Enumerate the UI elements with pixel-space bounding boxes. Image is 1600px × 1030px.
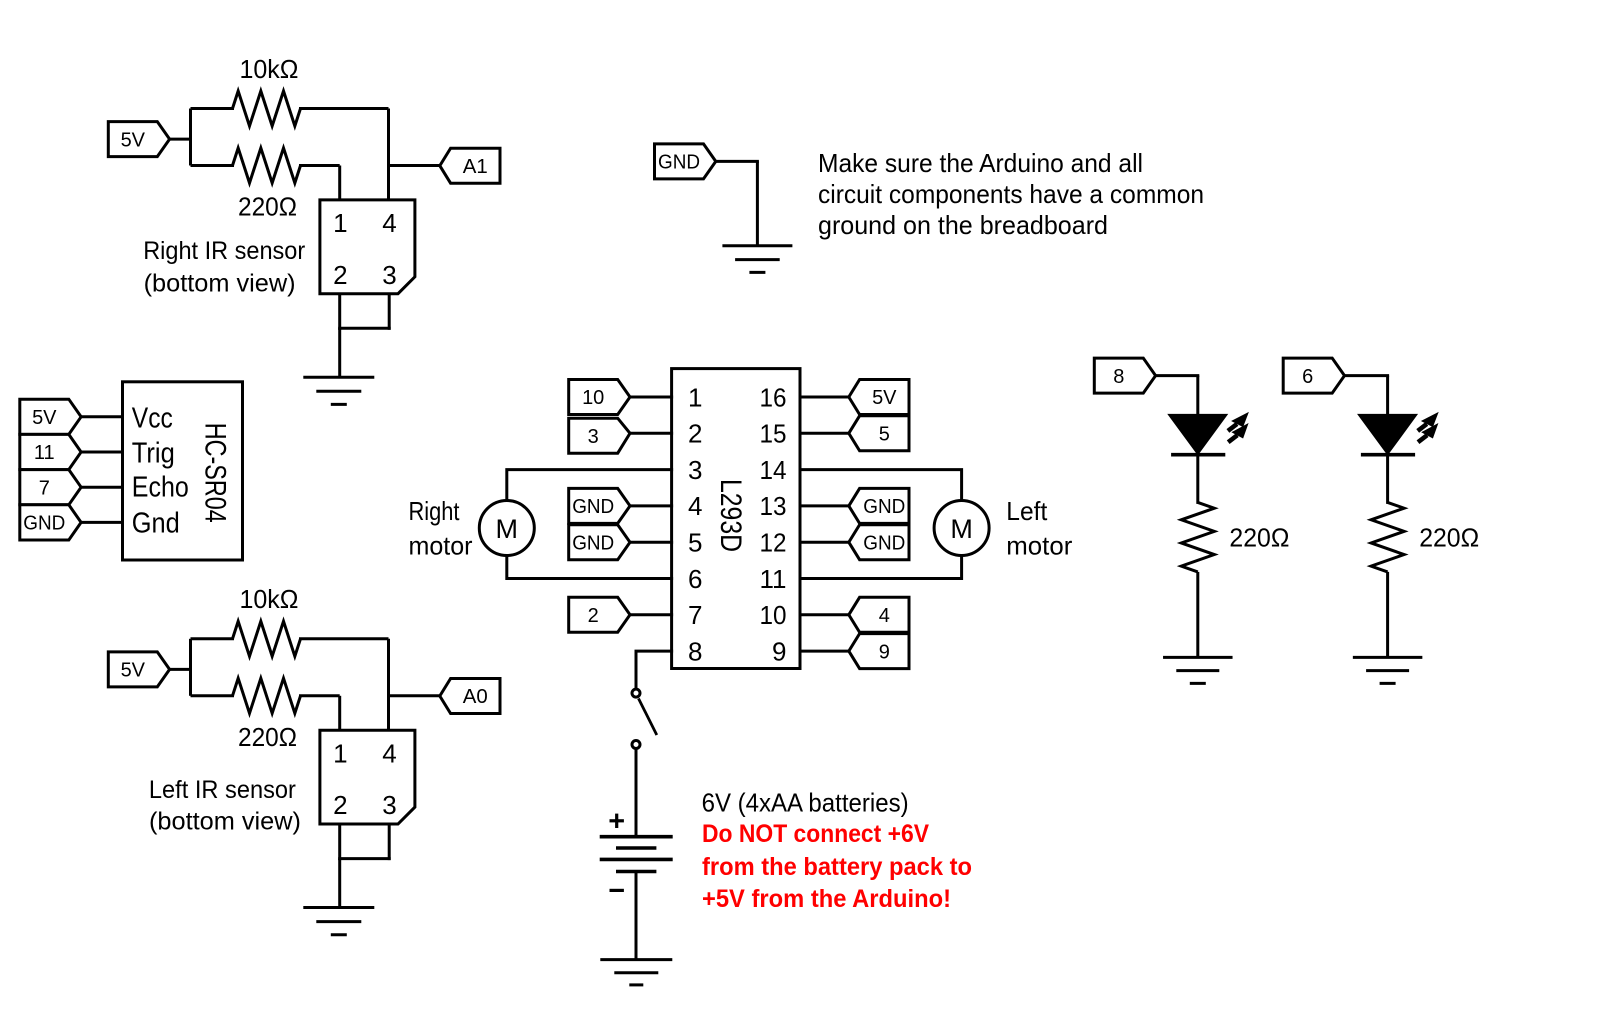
svg-text:5: 5 — [688, 528, 702, 558]
svg-text:2: 2 — [333, 790, 347, 820]
svg-text:GND: GND — [23, 513, 65, 535]
svg-text:1: 1 — [333, 739, 347, 769]
svg-text:11: 11 — [34, 442, 55, 464]
ground (common) — [722, 244, 792, 247]
wire — [299, 637, 389, 640]
svg-text:motor: motor — [1006, 531, 1072, 561]
wire — [629, 396, 673, 399]
svg-text:5V: 5V — [121, 660, 146, 682]
LED cathode bar — [1361, 453, 1415, 457]
flag 6 (LED) — [1283, 358, 1344, 393]
wire — [1386, 376, 1389, 417]
IR sensor box (left IR) — [320, 730, 415, 824]
svg-text:16: 16 — [760, 382, 787, 412]
wire — [299, 107, 389, 110]
wire to A0 — [389, 694, 441, 697]
svg-text:5: 5 — [879, 423, 890, 445]
svg-text:4: 4 — [688, 491, 702, 521]
wire — [80, 486, 124, 489]
label − — [610, 889, 624, 892]
svg-text:10: 10 — [582, 387, 604, 409]
flag 5V (left IR) — [108, 652, 169, 687]
wire — [1196, 456, 1199, 504]
label + — [610, 819, 624, 822]
svg-text:4: 4 — [879, 605, 890, 627]
wire — [338, 294, 341, 330]
svg-text:GND: GND — [658, 152, 700, 174]
svg-text:3: 3 — [382, 790, 396, 820]
svg-text:Echo: Echo — [132, 471, 189, 503]
flag A0 — [440, 679, 500, 714]
svg-text:Gnd: Gnd — [132, 507, 180, 539]
flag 2 (L293D pin 7) — [569, 597, 630, 632]
wire — [716, 160, 759, 163]
svg-text:3: 3 — [382, 260, 396, 290]
svg-text:Do NOT connect +6V: Do NOT connect +6V — [702, 820, 929, 848]
wire — [388, 824, 391, 860]
flag 7 (HC-SR04) — [20, 470, 81, 505]
flag 8 (LED) — [1094, 358, 1155, 393]
svg-text:4: 4 — [382, 739, 396, 769]
wire — [80, 415, 124, 418]
svg-text:Right: Right — [409, 496, 461, 526]
flag GND (L293D pin 4) — [569, 488, 630, 523]
wire — [338, 857, 391, 860]
wire — [635, 749, 638, 839]
svg-text:6V (4xAA batteries): 6V (4xAA batteries) — [702, 788, 909, 818]
wire — [169, 668, 191, 671]
wire — [191, 107, 235, 110]
wire — [799, 432, 850, 435]
flag GND (HC-SR04) — [20, 505, 81, 540]
switch blade SW1 — [639, 699, 657, 736]
svg-text:6: 6 — [688, 564, 702, 594]
svg-text:3: 3 — [588, 426, 599, 448]
wire — [799, 650, 850, 653]
flag 5 (L293D pin 15) — [849, 416, 909, 451]
flag 5V (right IR) — [108, 122, 169, 157]
svg-text:A1: A1 — [463, 156, 488, 178]
svg-text:10kΩ: 10kΩ — [240, 54, 299, 84]
flag A1 — [440, 148, 500, 183]
flag GND (L293D pin 13) — [849, 488, 909, 523]
svg-text:3: 3 — [688, 455, 702, 485]
svg-text:Trig: Trig — [132, 437, 175, 469]
svg-text:7: 7 — [39, 477, 50, 499]
switch contact a — [632, 689, 640, 697]
svg-text:220Ω: 220Ω — [238, 192, 297, 222]
svg-text:10kΩ: 10kΩ — [240, 584, 299, 614]
wire pin1 — [338, 696, 341, 732]
svg-text:10: 10 — [760, 600, 787, 630]
flag 4 (L293D pin 10) — [849, 597, 909, 632]
resistor 220Ω (left IR) — [233, 678, 301, 713]
flag 5V (HC-SR04) — [20, 399, 81, 434]
switch contact b — [632, 741, 640, 749]
wire pin6 — [507, 554, 673, 579]
wire — [191, 164, 235, 167]
ground (battery) — [600, 958, 672, 961]
ground (right IR) — [303, 376, 374, 379]
wire pin1 — [338, 166, 341, 202]
flag 10 (L293D pin 1) — [569, 380, 630, 415]
LED cathode bar — [1171, 453, 1225, 457]
resistor 10kΩ (right IR) — [233, 91, 301, 126]
svg-text:Right IR sensor: Right IR sensor — [143, 237, 305, 265]
svg-text:motor: motor — [409, 531, 473, 561]
LED light arrow 2 — [1418, 435, 1427, 442]
LED D8 anode triangle — [1170, 415, 1225, 453]
battery plate (short) — [616, 870, 656, 874]
battery plate (long) — [600, 858, 673, 862]
wire — [1345, 374, 1390, 377]
wire — [299, 694, 340, 697]
svg-text:220Ω: 220Ω — [238, 722, 297, 752]
resistor 220Ω (LED 6) — [1371, 502, 1404, 572]
wire — [169, 138, 191, 141]
wire pin4 — [387, 639, 390, 732]
svg-text:6: 6 — [1302, 366, 1313, 388]
svg-text:Make sure the Arduino and all: Make sure the Arduino and all — [818, 148, 1143, 178]
svg-text:GND: GND — [863, 496, 905, 518]
svg-text:1: 1 — [333, 208, 347, 238]
wire pin14 — [799, 470, 962, 502]
wire — [191, 694, 235, 697]
svg-text:from the battery pack to: from the battery pack to — [702, 853, 972, 881]
wire — [1196, 572, 1199, 658]
wire — [1386, 572, 1389, 658]
LED light arrow 1 — [1418, 424, 1427, 431]
wire — [629, 432, 673, 435]
ground (left IR) — [303, 906, 374, 909]
svg-text:14: 14 — [760, 455, 787, 485]
svg-text:circuit components have a comm: circuit components have a common — [818, 179, 1204, 209]
wire — [799, 613, 850, 616]
wire — [299, 164, 340, 167]
svg-text:ground on the breadboard: ground on the breadboard — [818, 210, 1108, 240]
svg-text:220Ω: 220Ω — [1229, 523, 1289, 553]
wire — [338, 824, 341, 860]
LED light arrow 2 — [1228, 435, 1237, 442]
resistor 10kΩ (left IR) — [233, 621, 301, 656]
wire — [635, 872, 638, 960]
flag 11 (HC-SR04) — [20, 434, 81, 469]
ground (LED 8) — [1163, 656, 1233, 659]
motor M (right) — [479, 501, 534, 556]
wire — [189, 109, 192, 166]
wire — [388, 294, 391, 330]
svg-text:2: 2 — [688, 419, 702, 449]
flag 3 (L293D pin 2) — [569, 418, 630, 453]
HC-SR04 box U2 — [123, 382, 243, 560]
svg-text:220Ω: 220Ω — [1419, 523, 1479, 553]
svg-text:Vcc: Vcc — [132, 402, 173, 434]
svg-text:(bottom view): (bottom view) — [144, 270, 296, 298]
svg-text:GND: GND — [572, 496, 614, 518]
resistor 220Ω (LED 8) — [1181, 502, 1214, 572]
wire — [338, 327, 391, 330]
svg-text:2: 2 — [588, 605, 599, 627]
svg-text:8: 8 — [1113, 366, 1124, 388]
wire — [338, 859, 341, 908]
LED D6 anode triangle — [1360, 415, 1415, 453]
svg-text:GND: GND — [863, 532, 905, 554]
wire — [629, 504, 673, 507]
wire — [1156, 374, 1200, 377]
wire — [629, 613, 673, 616]
flag 5V (L293D pin 16) — [849, 380, 909, 415]
svg-text:(bottom view): (bottom view) — [149, 808, 301, 836]
wire — [191, 637, 235, 640]
motor M (left) — [934, 501, 989, 556]
wire — [189, 639, 192, 696]
wire — [629, 541, 673, 544]
wire — [1386, 456, 1389, 504]
wire — [756, 161, 759, 245]
svg-text:Left: Left — [1006, 496, 1048, 526]
svg-text:9: 9 — [772, 636, 786, 666]
LED light arrow 1 — [1228, 424, 1237, 431]
wire to A1 — [389, 164, 441, 167]
svg-text:5V: 5V — [32, 407, 57, 429]
flag GND (L293D pin 12) — [849, 525, 909, 560]
wire — [338, 328, 341, 377]
svg-text:12: 12 — [760, 528, 787, 558]
wire — [799, 541, 850, 544]
battery plate (short) — [616, 846, 656, 850]
wire pin3 — [507, 470, 673, 502]
svg-text:Left IR sensor: Left IR sensor — [149, 776, 296, 804]
svg-text:A0: A0 — [463, 686, 488, 708]
svg-text:4: 4 — [382, 208, 396, 238]
wire pin4 — [387, 109, 390, 202]
L293D IC box U1 — [672, 369, 800, 669]
svg-text:M: M — [950, 514, 973, 544]
svg-text:+5V from the Arduino!: +5V from the Arduino! — [702, 885, 951, 913]
svg-text:M: M — [496, 514, 519, 544]
svg-text:L293D: L293D — [714, 479, 747, 552]
wire pin8 — [636, 651, 673, 689]
svg-text:2: 2 — [333, 260, 347, 290]
ground (LED 6) — [1353, 656, 1423, 659]
flag 9 (L293D pin 9) — [849, 634, 909, 669]
svg-text:HC-SR04: HC-SR04 — [198, 423, 231, 523]
battery BT1 plate + (long) — [600, 835, 673, 839]
resistor 220Ω (right IR) — [233, 148, 301, 183]
svg-text:5V: 5V — [121, 129, 146, 151]
wire — [799, 396, 850, 399]
svg-text:1: 1 — [688, 382, 702, 412]
flag GND (L293D pin 5) — [569, 525, 630, 560]
svg-text:7: 7 — [688, 600, 702, 630]
wire — [80, 451, 124, 454]
wire — [80, 521, 124, 524]
svg-text:GND: GND — [572, 532, 614, 554]
IR sensor box (right IR) — [320, 200, 415, 294]
svg-text:13: 13 — [760, 491, 787, 521]
svg-text:8: 8 — [688, 636, 702, 666]
wire — [1196, 376, 1199, 417]
flag GND (common ground) — [655, 144, 716, 179]
wire — [799, 504, 850, 507]
svg-text:11: 11 — [760, 564, 787, 594]
svg-text:5V: 5V — [872, 387, 897, 409]
svg-text:15: 15 — [760, 419, 787, 449]
wire pin11 — [799, 554, 962, 579]
svg-text:9: 9 — [879, 641, 890, 663]
